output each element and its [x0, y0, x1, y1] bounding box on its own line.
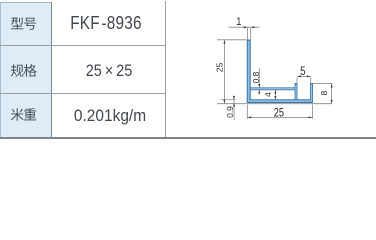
svg-text:0.8: 0.8 — [251, 71, 261, 83]
svg-text:25: 25 — [274, 106, 284, 120]
svg-text:5: 5 — [300, 65, 305, 78]
svg-text:8: 8 — [319, 91, 329, 96]
svg-text:0.9: 0.9 — [225, 106, 235, 118]
svg-text:1: 1 — [236, 15, 241, 28]
svg-text:4: 4 — [263, 92, 273, 97]
svg-text:25: 25 — [214, 63, 224, 73]
